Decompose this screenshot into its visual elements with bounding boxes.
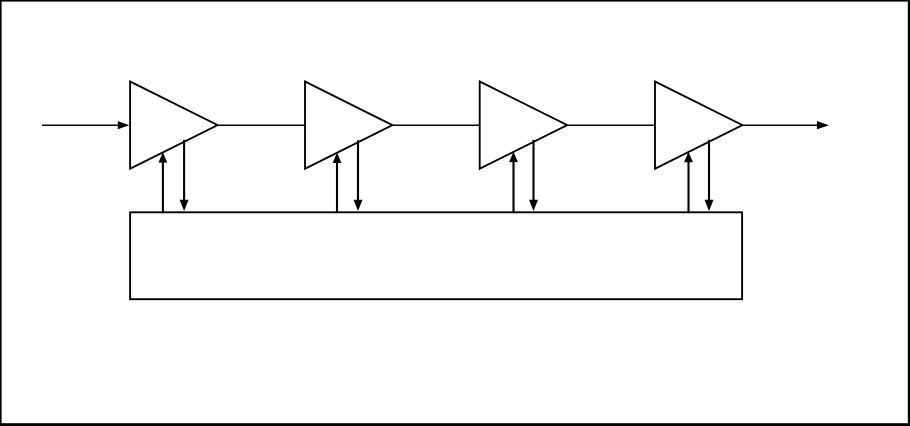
arrow up A2 — [336, 161, 338, 212]
wire output — [742, 124, 818, 126]
arrow up A4 — [687, 160, 689, 212]
arrow down A4 — [708, 140, 710, 201]
amplifier A1 — [130, 82, 218, 169]
arrowhead output — [817, 121, 829, 129]
amplifier A2 — [305, 82, 392, 169]
arrow down A1 — [183, 140, 185, 201]
amplifier A4 — [655, 82, 742, 169]
wire A1-A2 — [218, 124, 305, 126]
wire A2-A3 — [392, 124, 479, 126]
wire A3-A4 — [567, 124, 655, 126]
arrow down A3 — [532, 140, 534, 201]
control block — [130, 212, 742, 299]
amplifier A3 — [480, 82, 568, 169]
arrowhead input — [118, 121, 129, 129]
arrow up A1 — [162, 161, 164, 213]
wire input — [42, 124, 119, 126]
arrow down A2 — [357, 140, 359, 200]
arrow up A3 — [512, 160, 514, 212]
